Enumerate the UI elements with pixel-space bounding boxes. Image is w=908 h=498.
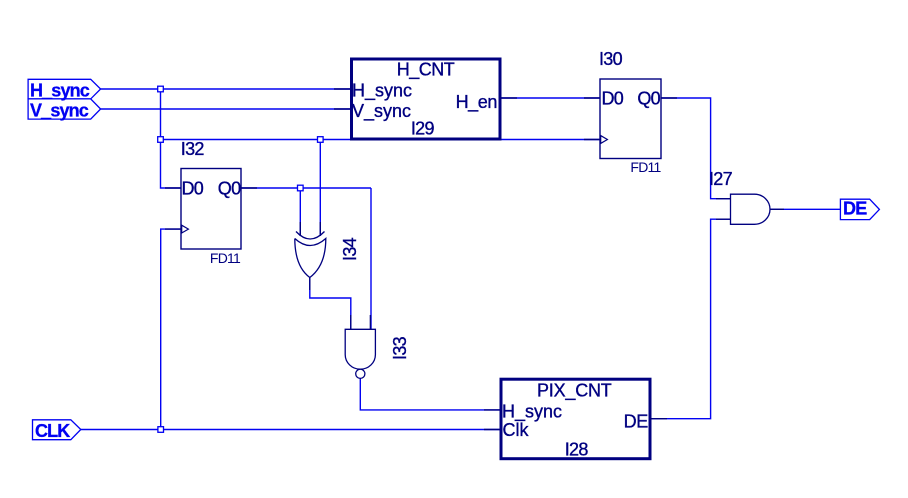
wire branch down to XOR left input	[299, 188, 301, 236]
svg-text:D0: D0	[182, 179, 204, 199]
svg-text:CLK: CLK	[35, 421, 70, 441]
NAND gate I33 body	[345, 329, 375, 369]
wire CLK branch up to clock of I32	[161, 229, 181, 429]
wire V_sync port to H_CNT	[101, 108, 351, 110]
svg-text:I29: I29	[411, 118, 435, 138]
svg-text:PIX_CNT: PIX_CNT	[537, 380, 612, 401]
wire Q0 of I32 across	[241, 187, 371, 189]
block H_CNT I29	[352, 59, 501, 139]
svg-text:Q0: Q0	[218, 179, 241, 199]
block PIX_CNT I28	[501, 379, 650, 459]
port H_sync	[28, 79, 101, 99]
wire CLK port to PIX_CNT Clk	[81, 429, 501, 431]
svg-text:Clk: Clk	[503, 420, 530, 440]
pin stubs FD11 I30	[584, 98, 677, 140]
pin stubs FD11 I32	[165, 188, 257, 229]
AND gate I27	[731, 194, 771, 224]
svg-text:I28: I28	[565, 440, 589, 460]
wire AND output to DE port	[770, 208, 840, 210]
port V_sync	[28, 99, 101, 119]
junction on I30-clock wire	[158, 137, 164, 143]
svg-text:DE: DE	[624, 411, 649, 431]
wire branch down to XOR right input	[319, 140, 321, 237]
pin stubs AND I27	[716, 199, 784, 220]
wire Q0 down to NAND right input	[370, 188, 372, 329]
svg-text:V_sync: V_sync	[352, 101, 411, 122]
svg-text:D0: D0	[602, 89, 624, 109]
block FD11 I32	[181, 169, 241, 250]
svg-text:I34: I34	[340, 237, 360, 261]
wire XOR output to NAND left input	[310, 278, 351, 330]
svg-text:V_sync: V_sync	[30, 101, 89, 121]
svg-text:I33: I33	[390, 336, 410, 360]
svg-text:Q0: Q0	[637, 89, 660, 109]
svg-text:I27: I27	[709, 169, 733, 189]
pin stubs PIX_CNT I28	[484, 410, 667, 430]
svg-text:I32: I32	[181, 139, 205, 159]
clock triangle I30	[601, 136, 608, 144]
port CLK	[33, 420, 81, 440]
XOR gate I34 body	[295, 239, 326, 278]
wire H_en to D0 of I30	[501, 97, 600, 99]
wire NAND output to PIX_CNT H_sync	[360, 378, 501, 410]
wire H_sync port to H_CNT	[101, 88, 351, 90]
wire PIX_CNT DE to AND bottom input	[651, 219, 731, 419]
svg-text:DE: DE	[843, 199, 867, 219]
XOR gate I34 input arc	[296, 232, 325, 240]
port DE	[840, 199, 879, 219]
pin stubs H_CNT I29	[334, 89, 517, 109]
junction on CLK wire	[158, 427, 164, 433]
junction XOR right branch	[318, 137, 324, 143]
wire Q0 of I30 to AND top input	[661, 98, 731, 199]
pin stubs NAND I33	[351, 315, 371, 329]
wire H_sync branch vertical to D0 of I32	[161, 89, 182, 188]
pin stubs XOR I34	[300, 222, 320, 290]
wire H_sync branch to clock of I30	[161, 139, 601, 141]
clock triangle I32	[182, 225, 189, 233]
block FD11 I30	[600, 79, 661, 159]
svg-text:FD11: FD11	[630, 159, 661, 175]
svg-text:H_CNT: H_CNT	[397, 60, 455, 81]
junction on H_sync wire	[158, 86, 164, 92]
junction XOR left branch on Q0 wire	[298, 185, 304, 191]
svg-text:H_en: H_en	[456, 92, 497, 113]
svg-text:H_sync: H_sync	[352, 81, 412, 102]
svg-text:I30: I30	[599, 49, 623, 69]
svg-text:FD11: FD11	[210, 250, 241, 266]
svg-text:H_sync: H_sync	[30, 81, 90, 101]
NAND gate I33 bubble	[356, 369, 365, 378]
